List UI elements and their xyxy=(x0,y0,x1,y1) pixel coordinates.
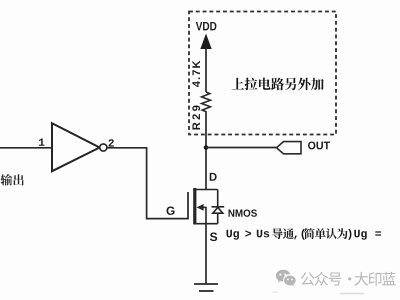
junction node xyxy=(204,145,209,150)
note text 上拉电路另外加 xyxy=(231,78,323,91)
resistor refdes R29 xyxy=(192,106,200,130)
wire: resistor to drain (OUT net) xyxy=(205,112,207,190)
part label NMOS xyxy=(229,209,257,216)
resistor value 4.7K xyxy=(192,61,200,87)
off-page connector OUT xyxy=(277,142,302,154)
resistor R29 zigzag xyxy=(202,92,211,112)
drain label D xyxy=(210,173,217,181)
net label OUT xyxy=(308,141,330,149)
wire: source to ground xyxy=(205,224,207,284)
dashed box: pull-up circuit region xyxy=(189,12,336,135)
inverter triangle xyxy=(52,123,100,171)
annotation: )Ug = xyxy=(348,229,381,240)
annotation 导通 xyxy=(272,228,294,239)
wire: inverter output to gate xyxy=(107,148,188,219)
ground xyxy=(194,284,218,291)
annotation: Ug > Us xyxy=(227,230,270,240)
wire to OUT connector xyxy=(206,147,277,149)
watermark wechat icon xyxy=(276,270,296,286)
input wire pin 1 xyxy=(0,147,52,149)
annotation 简单认为 xyxy=(304,228,348,239)
power net label VDD xyxy=(196,22,217,30)
faint smudge xyxy=(340,293,364,295)
label 输出 xyxy=(1,174,24,186)
pin number 2 xyxy=(109,139,114,146)
source label S xyxy=(210,233,217,242)
watermark text 公众号·大印蓝 xyxy=(301,272,396,286)
inverter bubble xyxy=(100,144,107,151)
power symbol VDD arrow xyxy=(200,34,211,93)
gate label G xyxy=(167,207,175,215)
body diode of NMOS xyxy=(212,207,225,213)
pin number 1 xyxy=(39,139,44,146)
NMOS transistor Q1 symbol xyxy=(188,188,218,225)
annotation punctuation xyxy=(294,229,305,240)
